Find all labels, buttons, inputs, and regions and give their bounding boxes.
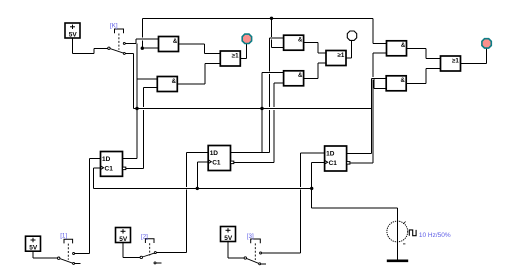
svg-text:5V: 5V: [29, 245, 38, 252]
svg-text:1D: 1D: [102, 156, 111, 163]
svg-text:&: &: [172, 79, 177, 85]
svg-text:C1: C1: [105, 166, 114, 173]
svg-text:5V: 5V: [119, 236, 128, 243]
svg-text:[3]: [3]: [247, 233, 254, 240]
svg-text:5V: 5V: [69, 31, 78, 38]
svg-text:&: &: [298, 73, 303, 79]
svg-text:&: &: [401, 78, 406, 84]
svg-text:5V: 5V: [224, 235, 233, 242]
svg-text:&: &: [173, 39, 178, 45]
svg-text:≥1: ≥1: [452, 57, 459, 64]
svg-text:1D: 1D: [210, 150, 219, 157]
svg-text:[1]: [1]: [60, 232, 67, 239]
svg-text:1D: 1D: [326, 151, 335, 158]
svg-text:[K]: [K]: [110, 23, 118, 30]
svg-text:10 Hz/50%: 10 Hz/50%: [419, 232, 451, 239]
svg-text:≥1: ≥1: [232, 52, 239, 59]
svg-text:&: &: [298, 38, 303, 44]
svg-text:&: &: [401, 43, 406, 49]
svg-text:≥1: ≥1: [337, 52, 344, 59]
svg-text:C1: C1: [212, 160, 221, 167]
svg-text:C1: C1: [329, 160, 338, 167]
svg-text:[2]: [2]: [141, 234, 148, 241]
